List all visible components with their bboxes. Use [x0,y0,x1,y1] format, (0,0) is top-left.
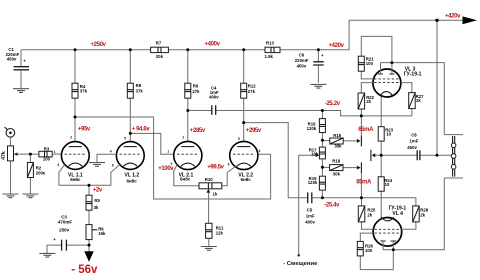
svg-text:+420v: +420v [445,14,461,20]
resistor R5 [86,185,101,224]
svg-text:-25.4v: -25.4v [324,202,340,208]
resistor R25 [358,198,376,230]
svg-text:100: 100 [366,61,374,66]
transformer T1 primary winding [444,135,463,178]
svg-text:R13: R13 [266,40,274,45]
svg-text:400v: 400v [305,219,315,224]
ground (R2) [22,194,38,198]
svg-text:30k: 30k [334,144,342,149]
tube VL1.1 [54,135,111,185]
svg-text:2k: 2k [420,212,425,217]
svg-text:R11: R11 [216,225,224,230]
svg-text:30k: 30k [333,172,341,177]
resistor R6 [86,225,106,252]
svg-text:+420v: +420v [329,43,345,49]
capacitor C4 [188,85,323,115]
svg-text:+295v: +295v [246,128,262,134]
ground (C3) [39,253,55,257]
connector arrow (cathode sense tap) [370,150,372,161]
svg-text:3k: 3k [94,205,99,210]
ground (R11) [201,247,217,251]
svg-text:+95v: +95v [78,127,91,133]
resistor R9 [185,50,200,142]
svg-text:120k: 120k [307,126,317,131]
resistor R18 [322,159,357,177]
svg-text:C8: C8 [411,132,417,137]
svg-text:37k: 37k [136,89,144,94]
svg-text:2: 2 [70,135,72,139]
node -56v arrow [84,251,93,262]
svg-text:6н8с: 6н8с [70,177,81,182]
svg-text:12k: 12k [216,231,224,236]
svg-text:- 56v: - 56v [71,264,98,276]
input jack [5,127,15,146]
wire B+ to center tap [437,20,451,155]
wire VL1.2 anode to VL2.1 grid [130,133,173,154]
svg-text:6: 6 [228,163,230,167]
svg-text:37k: 37k [80,89,88,94]
tube VL4 [373,206,406,250]
svg-text:6: 6 [112,164,114,168]
resistor R13 [265,40,281,59]
svg-text:470mF: 470mF [58,219,73,224]
svg-text:1mF: 1mF [306,213,315,218]
svg-text:2: 2 [182,136,184,140]
svg-text:100: 100 [365,248,373,253]
svg-text:R7: R7 [156,41,162,46]
svg-text:450v: 450v [7,57,17,62]
tube VL3 [373,63,422,97]
svg-text:4: 4 [110,149,112,153]
svg-text:450v: 450v [297,63,307,68]
node -25.2v bus [322,111,412,116]
svg-text:+285v: +285v [190,128,206,134]
svg-text:R8: R8 [136,83,142,88]
svg-text:+2v: +2v [93,187,103,193]
svg-text:27k: 27k [248,89,256,94]
resistor R3 [39,146,62,161]
node +420v arrow [463,16,478,24]
resistor R27 [401,83,424,116]
tube VL2.1 [167,136,202,186]
svg-text:3: 3 [57,163,59,167]
svg-text:450v: 450v [407,145,417,150]
svg-text:C5: C5 [307,208,313,213]
tube VL2.2 [222,137,261,186]
capacitor C6 [295,50,324,83]
resistor R21 [358,36,392,79]
resistor R16 [307,111,326,148]
svg-text:220mF: 220mF [295,58,309,63]
svg-text:15k: 15k [98,231,106,236]
svg-text:1k: 1k [213,191,218,196]
svg-text:1: 1 [54,150,56,154]
svg-text:-25.2v: -25.2v [325,101,341,107]
connector arrow (R15 to VL3 grid) [357,139,361,143]
svg-text:- Смещение: - Смещение [283,261,318,267]
svg-text:20k: 20k [156,54,164,59]
svg-text:R9: R9 [193,84,199,89]
capacitor C5 [305,192,416,224]
svg-text:+100v: +100v [158,166,174,172]
resistor R12 [241,50,257,142]
ground (VL1.2 grid) [89,163,105,167]
svg-text:R18: R18 [332,159,340,164]
resistor R22 [358,83,375,116]
resistor R8 [127,50,143,142]
resistor R11 [206,223,224,246]
resistor R2 [27,154,45,194]
resistor R7 [151,41,169,59]
svg-text:10: 10 [385,182,390,187]
svg-text:65mA: 65mA [356,180,372,186]
ground (pot) [2,194,18,198]
svg-text:10: 10 [386,131,391,136]
resistor R23 [378,96,393,155]
svg-text:6н8с: 6н8с [127,178,138,183]
svg-text:+ 94.6v: + 94.6v [132,126,151,132]
svg-text:250v: 250v [59,228,70,233]
capacitor C8 [381,132,437,160]
svg-text:+99.5v: +99.5v [207,164,224,170]
resistor R26 [357,233,393,270]
resistor R15 [322,133,357,149]
svg-text:120k: 120k [308,180,318,185]
resistor R28 [401,206,429,229]
wire VL1.1 anode to VL2.2 grid [75,117,271,199]
svg-text:2k: 2k [366,99,371,104]
svg-text:R10: R10 [205,177,213,182]
svg-text:1: 1 [167,150,169,154]
potentiometer 47k [1,146,39,194]
wire VL4 anodes to transformer [383,178,444,250]
connector arrow (R18 to VL4 grid) [357,166,361,170]
svg-text:1mF: 1mF [410,139,419,144]
resistor R19 [308,176,326,198]
svg-text:4: 4 [259,149,261,153]
svg-text:10k: 10k [311,152,319,157]
svg-text:6н8с: 6н8с [241,177,252,182]
svg-text:2k: 2k [367,213,372,218]
svg-text:R3: R3 [44,146,50,151]
wire VL2.2 anode to C5 [244,123,308,198]
svg-text:1.5k: 1.5k [265,54,274,59]
wire main +250v/+400v/+420v rail [21,20,463,66]
svg-text:6н8с: 6н8с [180,177,191,182]
svg-text:200к: 200к [36,171,46,176]
resistor R10 [199,177,222,223]
svg-text:27k: 27k [192,89,200,94]
svg-text:100: 100 [43,157,51,162]
wire VL3 anodes to transformer [381,63,445,135]
resistor R4 [72,50,88,142]
svg-text:R15: R15 [333,133,341,138]
potentiometer R17 [298,147,326,257]
resistor R24 [378,155,392,217]
capacitor C1 [6,47,29,88]
svg-text:47k: 47k [1,151,7,160]
ground (C6) [310,84,326,88]
svg-text:R12: R12 [248,83,256,88]
svg-text:65mA: 65mA [358,127,374,133]
svg-text:ГУ-19-1: ГУ-19-1 [404,72,422,78]
svg-text:VL 4: VL 4 [392,211,403,217]
svg-text:+400v: +400v [205,41,221,47]
svg-text:5: 5 [238,137,240,141]
svg-text:C6: C6 [299,52,305,57]
svg-text:R5: R5 [94,198,100,203]
svg-text:+250v: +250v [91,42,107,48]
capacitor C3 [47,215,89,254]
svg-text:5: 5 [124,136,126,140]
tube VL1.2 [97,136,144,185]
svg-text:2k: 2k [416,98,421,103]
ground (C1) [13,89,29,93]
svg-text:400v: 400v [209,95,219,100]
